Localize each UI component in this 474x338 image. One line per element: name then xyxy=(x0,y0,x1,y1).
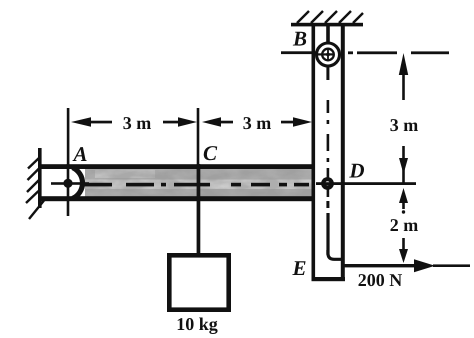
svg-text:B: B xyxy=(292,27,307,51)
svg-text:10 kg: 10 kg xyxy=(176,314,218,334)
svg-text:D: D xyxy=(348,159,364,183)
svg-text:3 m: 3 m xyxy=(123,113,152,133)
svg-text:A: A xyxy=(71,142,87,166)
svg-text:3 m: 3 m xyxy=(390,115,419,135)
svg-text:2 m: 2 m xyxy=(390,215,419,235)
svg-text:200 N: 200 N xyxy=(358,270,403,290)
svg-text:E: E xyxy=(291,256,306,280)
svg-text:3 m: 3 m xyxy=(243,113,272,133)
svg-text:C: C xyxy=(203,141,218,165)
